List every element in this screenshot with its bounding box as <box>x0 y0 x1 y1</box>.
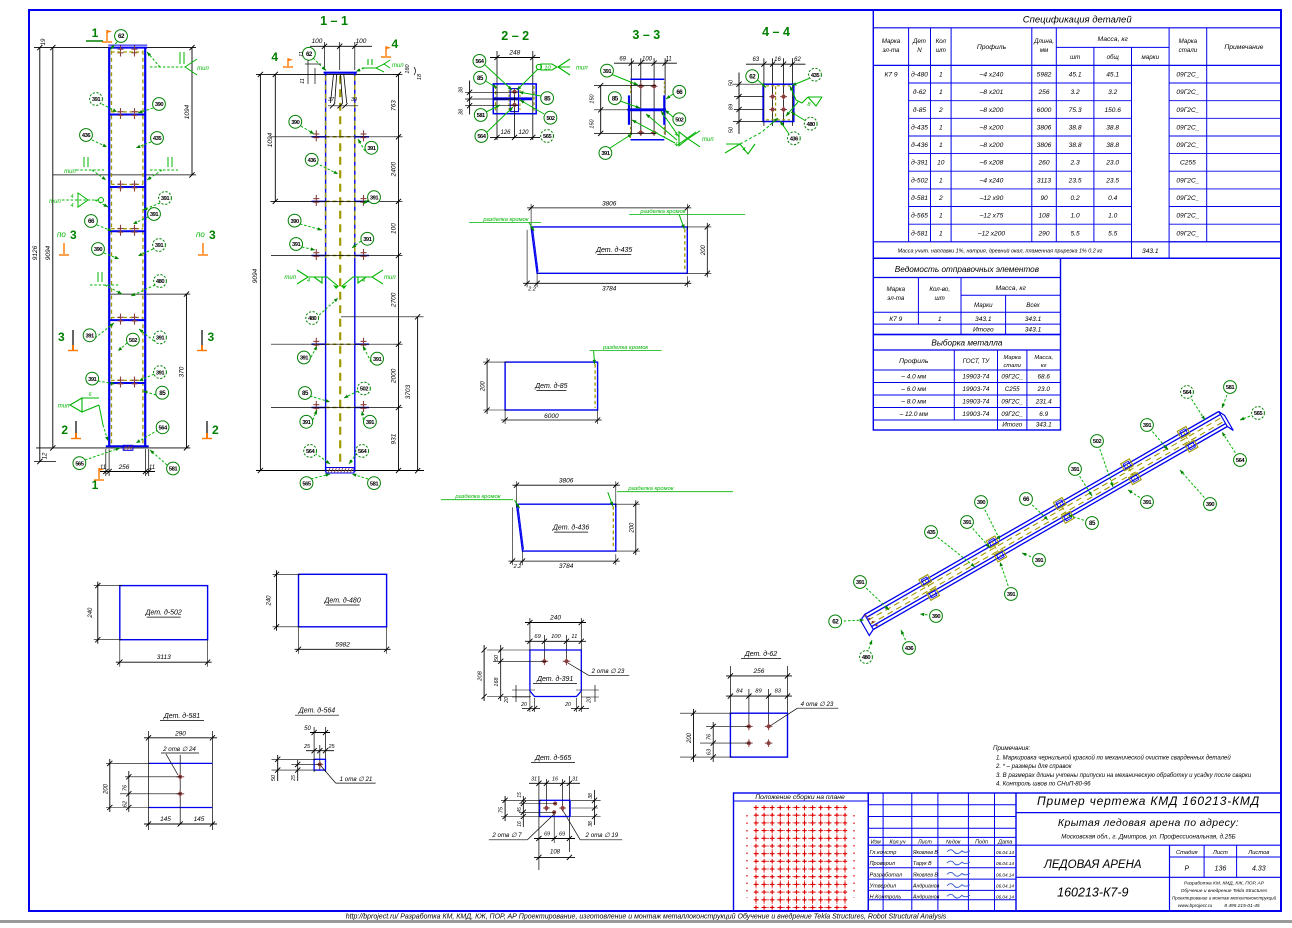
svg-text:1: 1 <box>939 124 943 131</box>
svg-text:Яковлев В: Яковлев В <box>912 850 938 856</box>
svg-text:д-480: д-480 <box>911 71 928 79</box>
svg-text:Дата: Дата <box>997 839 1012 845</box>
svg-text:1: 1 <box>939 89 943 96</box>
svg-text:16: 16 <box>774 57 781 63</box>
balloons 4-4 <box>758 80 767 88</box>
svg-text:581: 581 <box>1226 385 1235 391</box>
balloon 391 dashed b <box>143 203 160 210</box>
olive centreline dashed thick <box>339 76 341 468</box>
svg-text:Длина,: Длина, <box>1033 38 1054 45</box>
svg-text:Дет. д-391: Дет. д-391 <box>536 675 573 683</box>
svg-text:343.1: 343.1 <box>975 316 992 323</box>
svg-text:3: 3 <box>209 228 216 242</box>
svg-text:Разработал: Разработал <box>870 872 903 878</box>
balloon 85 <box>143 391 156 395</box>
svg-text:3.2: 3.2 <box>1108 89 1117 96</box>
revision rows <box>868 804 1016 806</box>
svg-text:564: 564 <box>159 426 168 432</box>
svg-text:240: 240 <box>267 595 273 607</box>
svg-text:63: 63 <box>707 748 713 755</box>
svg-text:2 отв ∅ 23: 2 отв ∅ 23 <box>591 668 625 675</box>
svg-text:Марка: Марка <box>887 286 906 293</box>
bolts 4-4 <box>769 96 776 98</box>
svg-text:5982: 5982 <box>1037 72 1052 79</box>
svg-text:09Г2С_: 09Г2С_ <box>1176 107 1199 114</box>
svg-text:19: 19 <box>41 38 47 45</box>
svg-text:Выборка металла: Выборка металла <box>931 339 1002 348</box>
svg-text:2.3: 2.3 <box>1070 160 1080 167</box>
svg-text:50: 50 <box>728 79 734 86</box>
svg-text:2400: 2400 <box>391 161 398 177</box>
svg-text:Обучение и внедрение Tekla Str: Обучение и внедрение Tekla Structures <box>1181 888 1268 894</box>
svg-text:240: 240 <box>549 615 561 622</box>
detail d-581 plate lines <box>149 762 213 764</box>
weld flag 8 4-4 <box>796 97 822 106</box>
svg-text:09Г2С_: 09Г2С_ <box>1176 124 1199 131</box>
svg-text:6000: 6000 <box>544 413 559 420</box>
svg-text:9126: 9126 <box>32 245 39 260</box>
title block: assembly position box <box>734 793 869 911</box>
bottom flange edge 3-3 <box>631 139 665 141</box>
svg-text:200: 200 <box>701 244 707 256</box>
svg-text:10: 10 <box>544 65 551 71</box>
svg-text:Пример чертежа КМД 160213-КМД: Пример чертежа КМД 160213-КМД <box>1037 794 1260 808</box>
svg-text:кг: кг <box>1041 363 1047 369</box>
detail d-581 left dims <box>106 762 150 764</box>
svg-text:391: 391 <box>1035 558 1044 564</box>
svg-text:тип: тип <box>392 63 404 69</box>
detail д-480 left dim <box>273 573 301 575</box>
svg-text:37: 37 <box>328 97 335 103</box>
svg-text:3. В размерах длины учтены при: 3. В размерах длины учтены припуски на м… <box>996 773 1252 779</box>
balloons 564 dashed pair <box>315 453 330 464</box>
svg-text:3703: 3703 <box>405 384 412 399</box>
svg-text:2000: 2000 <box>391 368 398 384</box>
balloon 391 dashed e <box>139 374 154 381</box>
svg-text:63: 63 <box>752 57 759 63</box>
svg-text:Изм: Изм <box>871 839 881 845</box>
svg-text:436: 436 <box>82 133 91 139</box>
svg-text:0.4: 0.4 <box>1108 195 1117 202</box>
bolts 3-3 <box>637 85 644 87</box>
svg-text:480: 480 <box>308 316 316 322</box>
svg-text:565: 565 <box>543 134 552 140</box>
balloon 391 dashed d <box>139 329 154 341</box>
detail d-391 top dims 69 100 11 <box>543 635 545 663</box>
svg-text:Итого: Итого <box>1002 422 1022 429</box>
svg-text:390: 390 <box>94 247 102 253</box>
svg-text:11: 11 <box>571 634 577 640</box>
stiffener rows with bolts <box>109 114 145 116</box>
balloon 62 <box>111 42 118 50</box>
svg-text:Итого: Итого <box>973 327 994 334</box>
3d balloon 391 <box>1075 469 1092 496</box>
svg-text:19903-74: 19903-74 <box>962 398 989 405</box>
svg-text:Дет. д-565: Дет. д-565 <box>534 754 571 762</box>
svg-text:391: 391 <box>1143 500 1152 506</box>
svg-text:120: 120 <box>518 130 529 136</box>
svg-text:3784: 3784 <box>602 285 617 292</box>
svg-text:31: 31 <box>572 776 578 782</box>
balloon 391 d <box>95 323 114 338</box>
svg-text:1: 1 <box>939 142 943 149</box>
top extension line <box>256 73 400 75</box>
svg-text:38: 38 <box>588 793 594 799</box>
bevel lines 37 39 <box>331 74 334 103</box>
svg-text:343.1: 343.1 <box>1025 316 1042 323</box>
balloon 390 b <box>104 253 119 259</box>
svg-text:Московская обл., г. Дмитров, у: Московская обл., г. Дмитров, ул. Професс… <box>1061 834 1235 841</box>
svg-text:4: 4 <box>362 278 365 284</box>
extension line mid <box>110 293 190 295</box>
svg-text:435: 435 <box>927 530 936 536</box>
3d balloon 390 <box>920 614 936 616</box>
svg-text:23.0: 23.0 <box>1036 386 1050 393</box>
detail д-480 outline <box>299 574 387 627</box>
3d balloon 581 <box>1222 387 1230 408</box>
svg-text:Масса,: Масса, <box>1034 355 1053 361</box>
svg-text:343.1: 343.1 <box>1025 327 1042 334</box>
svg-text:76: 76 <box>122 784 128 791</box>
svg-text:23.0: 23.0 <box>1105 160 1119 167</box>
svg-text:581: 581 <box>169 467 178 473</box>
detail d-581 centre line <box>179 755 181 824</box>
balloons 1-1 <box>301 126 314 134</box>
table: shipping elements <box>873 258 1060 334</box>
right dim line 1-1 <box>398 74 400 470</box>
svg-text:09Г2С_: 09Г2С_ <box>1176 89 1199 96</box>
table: specification details outer <box>873 10 1281 258</box>
svg-text:391: 391 <box>92 97 101 103</box>
3d balloon 564 <box>1222 432 1240 460</box>
dim line vertical 9126 <box>39 48 41 462</box>
svg-text:тип: тип <box>58 404 70 410</box>
svg-text:240: 240 <box>88 607 94 619</box>
svg-text:3806: 3806 <box>602 200 617 207</box>
detail d-85 outline <box>505 362 597 410</box>
svg-text:д-502: д-502 <box>911 176 928 184</box>
balloon 565 <box>85 448 120 460</box>
svg-text:тип: тип <box>384 275 396 281</box>
olive dashes 2-2 <box>495 86 497 111</box>
svg-text:тип: тип <box>284 275 296 281</box>
svg-text:12: 12 <box>42 452 48 459</box>
svg-text:Лист: Лист <box>1212 850 1228 856</box>
svg-text:–12 х200: –12 х200 <box>977 230 1005 237</box>
detail d-564 hole <box>316 763 323 765</box>
svg-text:Гл.констр: Гл.констр <box>870 850 897 856</box>
detail д-435 top dim 3806 <box>530 204 532 230</box>
detail d-62 plate <box>730 713 787 757</box>
svg-text:502: 502 <box>360 387 368 393</box>
svg-text:–8 х200: –8 х200 <box>979 142 1004 149</box>
svg-text:391: 391 <box>370 195 379 201</box>
svg-text:3 – 3: 3 – 3 <box>632 28 660 42</box>
svg-text:тип: тип <box>702 137 714 143</box>
svg-text:Разработка КМ, КМД, КЖ, ПОР, А: Разработка КМ, КМД, КЖ, ПОР, АР <box>1184 881 1265 887</box>
svg-text:– 4.0 мм: – 4.0 мм <box>900 373 926 380</box>
svg-text:90: 90 <box>1040 195 1048 202</box>
svg-text:– 8.0 мм: – 8.0 мм <box>900 398 926 405</box>
svg-text:343.1: 343.1 <box>1142 248 1159 255</box>
svg-text:62: 62 <box>749 73 756 80</box>
svg-text:3113: 3113 <box>1037 177 1052 184</box>
3d balloon 502 <box>1097 441 1113 487</box>
svg-text:89: 89 <box>755 689 762 695</box>
svg-text:391: 391 <box>156 370 165 376</box>
svg-text:4: 4 <box>70 203 73 209</box>
svg-text:100: 100 <box>551 634 561 640</box>
svg-text:1: 1 <box>92 26 99 40</box>
svg-text:83: 83 <box>775 689 782 695</box>
svg-text:581: 581 <box>477 113 486 119</box>
balloon 391 c <box>133 217 148 224</box>
svg-text:4 отв ∅ 23: 4 отв ∅ 23 <box>801 701 834 708</box>
spec table header lines <box>873 64 1281 66</box>
svg-text:ЛЕДОВАЯ АРЕНА: ЛЕДОВАЯ АРЕНА <box>1043 859 1142 871</box>
gauge verticals 3-3 <box>630 58 632 135</box>
svg-text:09Г2С_: 09Г2С_ <box>1176 72 1199 79</box>
svg-text:20: 20 <box>504 697 510 704</box>
extension line bottom <box>36 447 190 449</box>
column web left edge <box>325 73 327 472</box>
svg-text:108: 108 <box>1038 213 1049 220</box>
detail d-565 left dims 75 15 45 16 <box>501 799 541 801</box>
svg-text:150: 150 <box>590 93 596 103</box>
svg-text:200: 200 <box>687 732 693 744</box>
svg-text:ГОСТ, ТУ: ГОСТ, ТУ <box>963 358 991 365</box>
svg-text:11: 11 <box>149 465 155 471</box>
svg-text:Дет: Дет <box>912 38 926 45</box>
svg-text:д-391: д-391 <box>911 159 928 167</box>
extension line 9126 bottom <box>34 461 56 463</box>
svg-text:108: 108 <box>550 850 561 856</box>
svg-text:75: 75 <box>499 806 505 813</box>
svg-text:564: 564 <box>1183 390 1192 396</box>
olive edges 4-4 <box>775 86 777 120</box>
svg-text:168: 168 <box>494 676 500 686</box>
column flange left (blue) <box>108 48 110 447</box>
svg-text:Р: Р <box>1184 866 1189 873</box>
svg-text:4: 4 <box>70 194 73 200</box>
svg-text:100: 100 <box>642 56 653 62</box>
svg-text:тип: тип <box>49 199 61 205</box>
svg-text:1: 1 <box>939 72 943 79</box>
svg-text:Кол-во,: Кол-во, <box>929 286 950 293</box>
svg-text:–8 х200: –8 х200 <box>979 107 1004 114</box>
balloon 391 dashed <box>102 104 117 112</box>
svg-text:–6 х208: –6 х208 <box>979 160 1004 167</box>
svg-text:39: 39 <box>351 97 357 103</box>
svg-text:19903-74: 19903-74 <box>962 386 989 393</box>
vyb header <box>873 369 1060 371</box>
olive corners 3-3 <box>630 82 632 94</box>
detail d-581 top dim 290 <box>148 731 150 830</box>
ved header <box>873 311 1060 313</box>
detail d-564 top dim 50 <box>313 727 315 772</box>
web thick 3-3 <box>628 108 667 111</box>
svg-text:69: 69 <box>544 832 550 838</box>
svg-text:2: 2 <box>212 423 219 437</box>
beam cross stations <box>919 575 932 587</box>
svg-text:4: 4 <box>271 50 278 64</box>
bottom dims 126 120 2-2 <box>490 136 540 138</box>
svg-text:Марка: Марка <box>1179 38 1198 45</box>
svg-text:Дет. д-480: Дет. д-480 <box>323 597 360 605</box>
svg-text:2: 2 <box>938 195 943 202</box>
3d balloon 66 <box>1026 499 1048 520</box>
svg-text:565: 565 <box>302 481 311 487</box>
svg-text:1.0: 1.0 <box>1108 213 1117 220</box>
svg-text:256: 256 <box>1037 89 1049 96</box>
svg-text:20: 20 <box>564 702 571 708</box>
3d balloon 564 <box>1187 392 1205 420</box>
detail д-502 left dim <box>94 585 122 587</box>
svg-text:480: 480 <box>807 122 815 128</box>
svg-text:931: 931 <box>391 433 398 444</box>
svg-text:23.5: 23.5 <box>1105 177 1119 184</box>
beam end face left <box>861 615 874 636</box>
detail d-62 left dims 200 76 63 <box>680 712 732 714</box>
detail d-391 chamfer dims 20 <box>512 689 535 691</box>
svg-text:391: 391 <box>373 357 382 363</box>
svg-text:4 – 4: 4 – 4 <box>762 25 790 39</box>
svg-text:06.04.14: 06.04.14 <box>996 861 1014 866</box>
svg-text:62: 62 <box>306 51 313 58</box>
svg-text:Кол: Кол <box>936 38 947 45</box>
svg-text:3: 3 <box>70 228 77 242</box>
3d balloon 390 <box>1180 470 1210 504</box>
svg-text:09Г2С_: 09Г2С_ <box>1176 195 1199 202</box>
3d balloon 391 <box>1000 562 1011 594</box>
svg-text:391: 391 <box>367 146 376 152</box>
svg-text:Марка: Марка <box>882 38 901 45</box>
flange plate outline 2-2 <box>493 84 536 114</box>
svg-text:2 отв ∅ 7: 2 отв ∅ 7 <box>491 832 522 839</box>
stiffener rows 1-1 <box>312 136 326 138</box>
table: metal selection <box>873 335 1060 431</box>
svg-text:391: 391 <box>603 69 612 75</box>
svg-text:шт: шт <box>1070 54 1080 61</box>
svg-text:С255: С255 <box>1005 386 1020 393</box>
svg-text:480: 480 <box>862 655 870 661</box>
title block main outline <box>868 793 1281 911</box>
dim 248 top <box>490 57 540 59</box>
svg-text:4.33: 4.33 <box>1252 866 1266 873</box>
balloons 2-2 right <box>519 92 541 96</box>
column top cap 1-1 <box>324 72 357 74</box>
balloon 66 <box>97 225 112 231</box>
svg-text:200: 200 <box>629 522 635 534</box>
svg-text:Дет. д-564: Дет. д-564 <box>298 707 335 715</box>
svg-text:565: 565 <box>1254 411 1263 417</box>
svg-text:564: 564 <box>306 449 315 455</box>
svg-text:Крытая ледовая арена по адресу: Крытая ледовая арена по адресу: <box>1058 817 1239 829</box>
svg-text:Марки: Марки <box>974 302 993 309</box>
svg-text:89: 89 <box>728 104 734 110</box>
svg-text:502: 502 <box>546 116 554 122</box>
3d balloon 565 <box>1240 413 1258 420</box>
dim line 1094 right <box>191 48 193 175</box>
svg-text:4: 4 <box>742 147 745 153</box>
detail d-564 dims 25 25 <box>319 745 321 770</box>
detail d-85 left dim 200 <box>483 361 507 363</box>
svg-text:Всех: Всех <box>1026 302 1040 309</box>
svg-text:23.5: 23.5 <box>1068 177 1082 184</box>
svg-text:1: 1 <box>939 213 943 220</box>
svg-text:д-435: д-435 <box>911 123 928 131</box>
svg-text:Дет. д-502: Дет. д-502 <box>145 609 182 617</box>
svg-text:–8 х200: –8 х200 <box>979 124 1004 131</box>
top dim 100 100 <box>310 45 372 47</box>
left dims 38 38 2-2 <box>469 81 471 115</box>
svg-text:20: 20 <box>587 697 593 704</box>
svg-text:68.6: 68.6 <box>1037 373 1050 380</box>
beam end face right <box>1219 412 1234 431</box>
svg-text:231.4: 231.4 <box>1035 398 1052 405</box>
svg-text:391: 391 <box>86 334 95 340</box>
svg-text:– 12.0 мм: – 12.0 мм <box>899 411 929 418</box>
3d balloon 391 <box>860 582 889 610</box>
svg-text:4. Контроль швов по СНиП-80-96: 4. Контроль швов по СНиП-80-96 <box>996 782 1091 788</box>
balloon 581 <box>150 450 167 465</box>
svg-text:564: 564 <box>475 59 484 65</box>
svg-text:06.04.14: 06.04.14 <box>996 884 1014 889</box>
column web right edge <box>354 73 356 472</box>
svg-text:390: 390 <box>977 500 985 506</box>
svg-text:2700: 2700 <box>391 292 398 308</box>
weld flag N mid-left <box>76 169 104 171</box>
svg-text:Утвердил: Утвердил <box>869 884 897 890</box>
svg-text:2. * – размеры для справок: 2. * – размеры для справок <box>995 764 1073 770</box>
svg-text:390: 390 <box>291 120 299 126</box>
weld flag N mid-right <box>150 169 178 171</box>
svg-text:19903-74: 19903-74 <box>962 373 989 380</box>
svg-text:480: 480 <box>156 279 164 285</box>
svg-text:1094: 1094 <box>184 104 191 119</box>
weld tip top right <box>367 59 369 65</box>
svg-text:8 495 215-01-45: 8 495 215-01-45 <box>1224 903 1260 909</box>
balloon 391 e <box>98 381 115 384</box>
svg-text:д-581: д-581 <box>911 229 928 237</box>
bottom dim 11 256 11 <box>105 449 107 476</box>
beam centreline dashed <box>868 417 1222 620</box>
svg-text:76: 76 <box>707 733 713 740</box>
balloon 502 <box>118 343 127 351</box>
svg-text:391: 391 <box>1143 423 1152 429</box>
svg-text:391: 391 <box>156 336 165 342</box>
svg-text:16: 16 <box>552 776 559 782</box>
svg-text:Профиль: Профиль <box>899 358 929 365</box>
svg-text:09Г2С_: 09Г2С_ <box>1176 142 1199 149</box>
left dim 1094 <box>274 74 276 201</box>
detail д-436 olive edge <box>612 506 614 549</box>
3d balloon 480 <box>866 640 872 657</box>
svg-text:208: 208 <box>478 670 484 681</box>
balloon 480 dashed 1-1 <box>316 298 338 318</box>
beam edge lines <box>865 412 1219 615</box>
3d balloon 390 <box>981 502 1000 540</box>
svg-text:391: 391 <box>88 377 97 383</box>
svg-text:390: 390 <box>1206 502 1214 508</box>
extension line top <box>34 47 196 49</box>
svg-text:2: 2 <box>61 423 68 437</box>
svg-text:200: 200 <box>103 783 109 795</box>
svg-text:9094: 9094 <box>45 245 52 260</box>
svg-text:38.8: 38.8 <box>1106 142 1119 149</box>
olive weld overlay left edge <box>325 76 327 258</box>
detail d-391 top dim 240 <box>529 618 531 652</box>
